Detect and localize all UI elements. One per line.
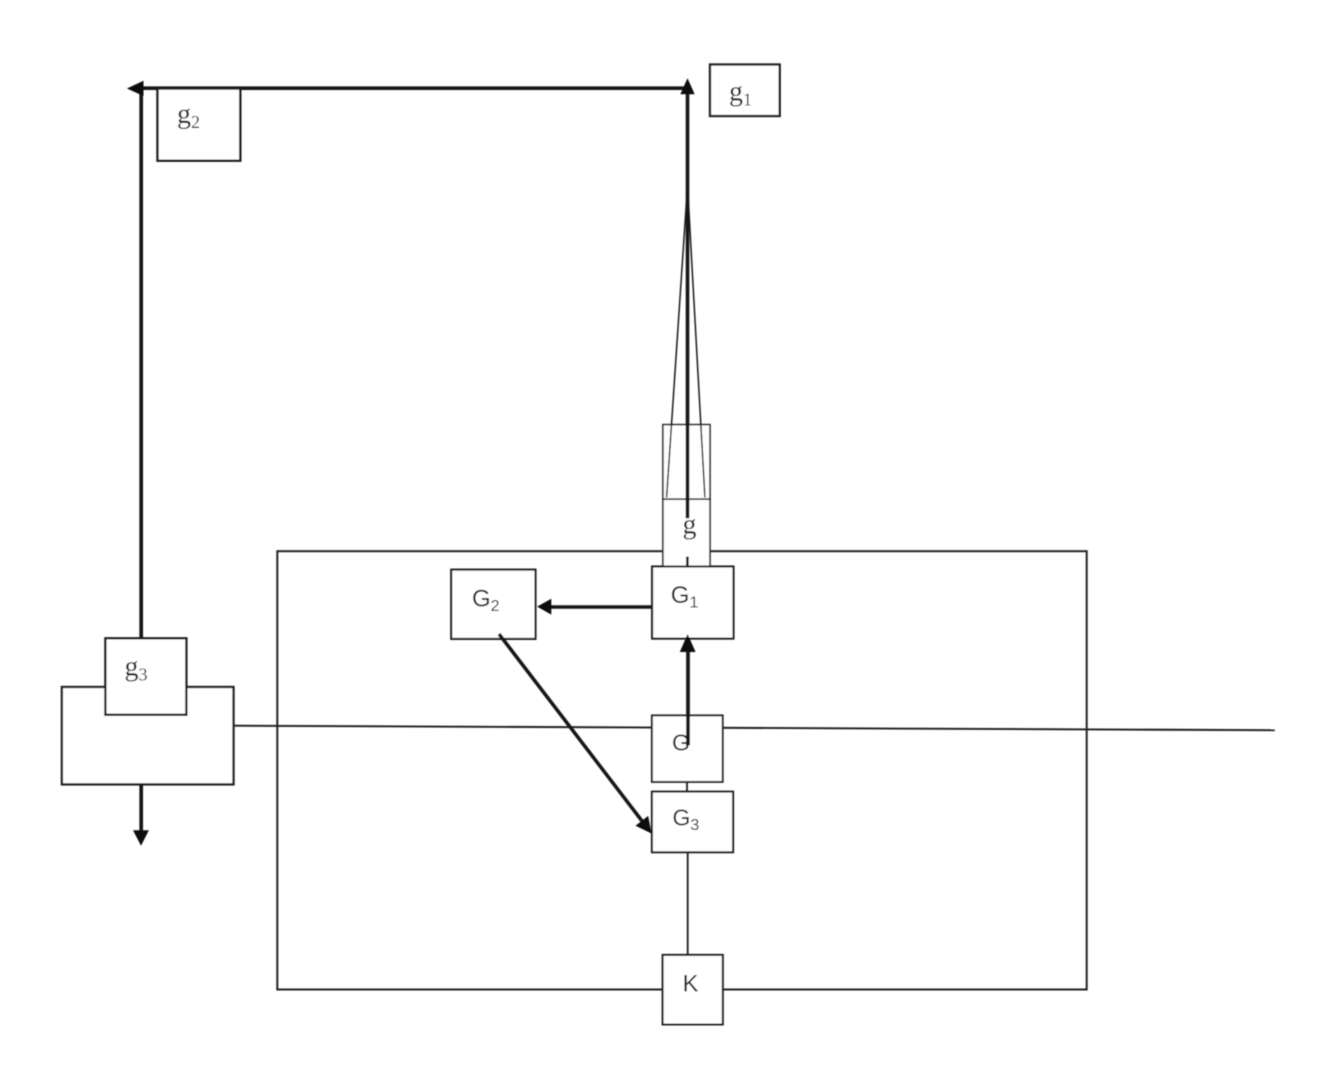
arrowhead up (top-right) xyxy=(680,78,694,94)
box G3 xyxy=(652,792,733,853)
wire: g box to G1 connector xyxy=(686,557,689,568)
arrow G to G1: head xyxy=(680,634,696,652)
arrow G1 to G2: head xyxy=(537,599,551,615)
left wide summing box xyxy=(62,687,234,784)
arrow G2 to G3 diagonal: shaft xyxy=(499,634,642,821)
svg-text:G: G xyxy=(672,729,690,755)
antenna triangle right line xyxy=(688,189,705,498)
wire: long thin horizontal line xyxy=(234,726,1275,731)
wire: G3 to K connector xyxy=(687,852,689,955)
wire: top horizontal thick line xyxy=(140,86,688,90)
arrow down below summing box: head xyxy=(133,830,149,846)
wire: G to G3 connector xyxy=(686,782,688,792)
box G2 xyxy=(451,570,535,639)
arrow down below summing box: shaft xyxy=(139,784,143,832)
box g3 xyxy=(105,638,186,715)
box K xyxy=(663,955,723,1025)
antenna triangle left line xyxy=(667,189,688,498)
outer system boundary rectangle xyxy=(277,551,1086,989)
box G1 xyxy=(652,567,733,639)
svg-text:K: K xyxy=(683,971,699,998)
svg-text:g: g xyxy=(683,510,697,541)
mast: central thick vertical line xyxy=(686,90,690,518)
box g1 xyxy=(710,65,780,117)
arrowhead left (top-left) xyxy=(127,81,144,96)
arrow G to G1: shaft xyxy=(686,651,690,745)
antenna upper empty box xyxy=(663,425,710,500)
arrow G1 to G2: shaft xyxy=(551,605,653,609)
box g xyxy=(663,499,710,566)
wire: left thick vertical line xyxy=(139,94,143,638)
box G xyxy=(652,715,723,782)
box g2 xyxy=(158,89,241,161)
arrow G2 to G3 diagonal: head xyxy=(636,816,652,834)
